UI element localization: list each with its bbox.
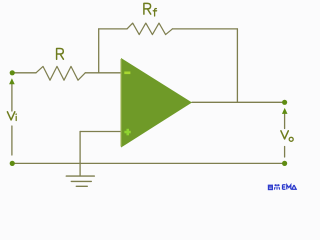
wire Vi lower segment [11,126,13,155]
pin label plus (non-inverting input) [124,129,130,136]
resistor Rf [127,23,172,34]
label Rf [144,3,157,16]
ground [66,176,94,186]
node Vi top (input terminal) [10,70,15,75]
label Vo [281,131,293,142]
wire output [192,101,282,103]
wire feedback left vertical [98,29,100,73]
node Vo bottom [282,161,287,166]
resistor R [36,66,85,80]
wire ground vertical [79,132,81,177]
label Vi [7,112,16,121]
wire Vo shaft [284,114,286,129]
wire Vo lower segment [284,147,286,158]
wire Vi shaft [11,84,13,111]
wire resistor to inverting input [85,72,121,74]
op-amp U1 [121,58,192,148]
pin label minus (inverting input) [124,72,130,75]
wire feedback right vertical [236,29,238,102]
wire feedback top right segment [172,28,237,30]
wire bottom rail [15,162,283,164]
wire feedback top left segment [99,28,127,30]
wire non-inverting input [80,131,121,133]
wire input left segment [15,72,37,74]
arrow Vi (points up) [9,78,15,84]
arrow Vo (points up) [282,108,288,114]
watermark logo 百芯EMA [268,184,280,189]
label R [57,49,64,60]
node Vo top (output terminal) [282,100,287,105]
node Vi bottom [10,161,15,166]
